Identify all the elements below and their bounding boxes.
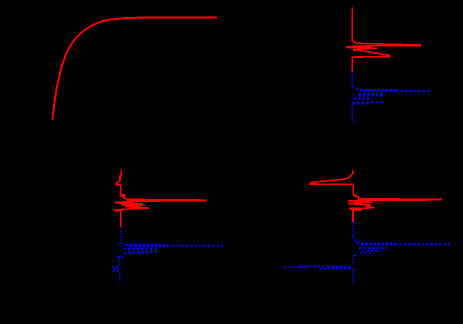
BR red faded top tip xyxy=(352,169,354,172)
top-right panel: blue dashed spectrum xyxy=(352,72,431,123)
bottom-left: thick overlap segment of main peak xyxy=(127,200,161,202)
top-left panel: red saturation curve xyxy=(52,17,217,119)
BL red faded top tip xyxy=(120,169,122,172)
bottom-right panel: blue dashed spectrum xyxy=(284,222,450,283)
TR red faded top tip xyxy=(351,7,353,10)
bottom-left panel: blue dashed spectrum xyxy=(113,227,226,282)
